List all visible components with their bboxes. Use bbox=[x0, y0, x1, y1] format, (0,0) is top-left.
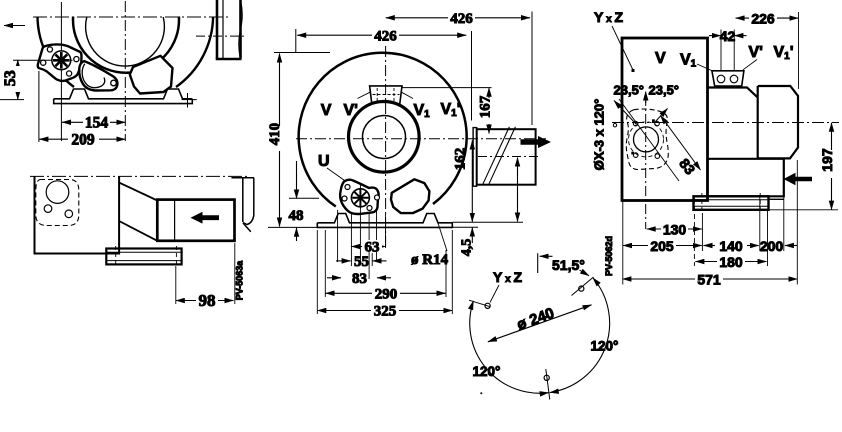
dimension 325 bbox=[317, 230, 452, 320]
svg-text:V': V' bbox=[749, 44, 763, 61]
svg-text:PV-5062d: PV-5062d bbox=[604, 236, 614, 276]
radial stub hole 1 bbox=[469, 300, 491, 307]
terminal box trapezoid bbox=[370, 86, 402, 105]
fan cover joint line bbox=[757, 86, 759, 159]
bolt hole lower-left bbox=[633, 153, 638, 158]
kidney inner hook line bbox=[82, 64, 105, 88]
dimension 130 bbox=[647, 222, 702, 238]
flange hole top-left bbox=[47, 47, 52, 52]
svg-text:V': V' bbox=[344, 102, 358, 119]
terminal box trapezoid bbox=[712, 71, 744, 86]
svg-text:53: 53 bbox=[2, 70, 19, 86]
dashed flange footprint bbox=[36, 180, 79, 226]
svg-text:162: 162 bbox=[453, 148, 469, 171]
left 23,5 arrow bbox=[614, 101, 636, 125]
dimension 42 bbox=[709, 28, 747, 71]
body outline bbox=[35, 176, 120, 253]
bolt hole lower-right bbox=[655, 154, 660, 159]
51,5 deg reference line bbox=[538, 253, 589, 275]
dimension 83 bbox=[327, 271, 391, 287]
radial stub hole 2 bbox=[572, 277, 594, 296]
flange hole right bbox=[375, 195, 380, 200]
muffler inner line bbox=[222, 0, 224, 58]
flange bore circle bbox=[46, 181, 69, 204]
dimension 200 bbox=[760, 238, 797, 254]
svg-text:98: 98 bbox=[199, 291, 216, 310]
VIEW D: right side view bbox=[592, 9, 840, 288]
dimension 426 lower bbox=[296, 29, 472, 121]
flange star circle bbox=[351, 189, 369, 207]
VIEW C: bottom-left half plan view bbox=[30, 176, 254, 310]
base plate bottom and end caps bbox=[54, 99, 193, 104]
inlet arrow (black) bbox=[784, 173, 813, 186]
dimension 140 bbox=[704, 238, 759, 254]
muffler break line bbox=[239, 0, 243, 59]
flange vertical centerline with arrow bbox=[645, 92, 647, 230]
flange hole bottom bbox=[67, 71, 72, 76]
left 120 deg arc bbox=[470, 301, 549, 393]
svg-text:426: 426 bbox=[450, 11, 473, 27]
outlet muffler box bbox=[477, 129, 536, 185]
svg-text:V: V bbox=[655, 50, 666, 67]
svg-text:V: V bbox=[321, 102, 332, 119]
casing end silhouette bbox=[231, 178, 254, 232]
terminal box glands bbox=[717, 75, 725, 83]
dimension 571 bbox=[622, 272, 797, 288]
svg-text:23,5°: 23,5° bbox=[649, 83, 680, 98]
dimension 426 upper bbox=[386, 11, 532, 125]
muffler inner line bbox=[174, 201, 176, 241]
stray dot bbox=[480, 392, 482, 394]
muffler centerline bbox=[196, 35, 247, 37]
silencer step line bbox=[769, 198, 785, 200]
horizontal centerline bbox=[612, 122, 839, 124]
base plate bbox=[694, 196, 769, 210]
inlet arrow (black) bbox=[191, 212, 220, 224]
muffler centerline bbox=[478, 156, 538, 158]
bolt dot lower-left bbox=[631, 152, 634, 155]
dimension 53 bbox=[0, 60, 24, 100]
svg-text:197: 197 bbox=[819, 148, 835, 172]
kidney cutout outline bbox=[79, 61, 117, 90]
extension lines bottom bbox=[623, 160, 798, 285]
dimension 197 bbox=[769, 123, 839, 210]
right 120 deg arc bbox=[550, 278, 610, 393]
flange hole left bbox=[44, 205, 52, 213]
base plate profile bbox=[317, 214, 452, 223]
flange blob outline bbox=[38, 44, 82, 80]
dimension 4,5 bbox=[452, 227, 478, 256]
VIEW A: top-left partial front view bbox=[0, 0, 247, 148]
dimension 63 bbox=[351, 240, 385, 256]
svg-text:55: 55 bbox=[354, 254, 369, 270]
flange crosshair horizontal + 53 ext bbox=[13, 59, 73, 61]
svg-text:140: 140 bbox=[719, 238, 743, 254]
base plate profile top bbox=[54, 89, 193, 99]
discharge arrow (black) bbox=[521, 136, 552, 148]
horizontal centerline bbox=[296, 138, 546, 140]
svg-text:ø R14: ø R14 bbox=[411, 252, 449, 268]
svg-text:42: 42 bbox=[720, 28, 736, 44]
dimension 154 bbox=[62, 115, 125, 132]
muffler break lines bbox=[483, 127, 515, 184]
svg-text:180: 180 bbox=[719, 254, 743, 270]
casing top edge bbox=[708, 88, 758, 98]
base plate inner lines bbox=[694, 200, 769, 207]
bolt hole upper-right bbox=[655, 121, 660, 126]
pentagon cutout bbox=[391, 179, 429, 213]
leader to V1 label bbox=[402, 92, 414, 98]
svg-text:290: 290 bbox=[375, 287, 398, 303]
diagonal hole axis line bbox=[619, 99, 679, 181]
base bolt dashed lines bbox=[116, 246, 177, 267]
svg-text:48: 48 bbox=[289, 208, 304, 224]
flange extension lines down bbox=[338, 184, 386, 279]
impeller ring arc bbox=[73, 17, 179, 73]
base plate bbox=[106, 249, 181, 265]
diameter 240 dimension line bbox=[488, 305, 592, 342]
svg-text:200: 200 bbox=[760, 238, 784, 254]
dimension 205 bbox=[623, 238, 702, 254]
flange hole left bbox=[342, 196, 347, 201]
motor outline bbox=[758, 86, 798, 158]
pentagon cutout bbox=[130, 56, 173, 94]
horizontal centerline / symmetry line bbox=[30, 175, 247, 177]
svg-text:V1': V1' bbox=[774, 44, 794, 62]
main horizontal centerline bbox=[33, 16, 228, 18]
svg-text:167: 167 bbox=[478, 95, 494, 118]
flange star symbol bbox=[53, 52, 70, 69]
flange hole right bbox=[65, 210, 73, 218]
discharge muffler box bbox=[217, 0, 241, 59]
svg-text:ØX-3 x 120°: ØX-3 x 120° bbox=[592, 99, 607, 171]
dimension 209 bbox=[39, 71, 125, 148]
svg-text:226: 226 bbox=[751, 11, 775, 27]
dimension 226 bbox=[736, 11, 799, 90]
base bolt centerlines bbox=[702, 193, 760, 213]
right 23,5 arrow bbox=[656, 109, 668, 122]
svg-text:120°: 120° bbox=[473, 364, 501, 379]
leader to V' label bbox=[358, 92, 371, 98]
flange hole top-left bbox=[345, 185, 350, 190]
base top extension line right bbox=[452, 221, 523, 223]
svg-text:120°: 120° bbox=[591, 339, 619, 354]
flange hole left bbox=[41, 60, 46, 65]
bolt hole upper-left bbox=[633, 121, 638, 126]
unlabeled vertical dimension at muffler bbox=[517, 158, 519, 222]
outlet flange plate bbox=[473, 128, 477, 187]
duct lower diagonal bbox=[119, 221, 157, 241]
base plate inner lines bbox=[106, 252, 181, 260]
bolt hole 3 (bottom) bbox=[544, 375, 549, 380]
flange bore dashed ring bbox=[629, 122, 664, 157]
flange blob outline bbox=[340, 180, 378, 214]
hub ring circle bbox=[349, 102, 420, 173]
dimension 83 diagonal bbox=[661, 116, 701, 178]
inner bore arc bbox=[86, 17, 165, 66]
svg-text:PV-5063a: PV-5063a bbox=[235, 260, 245, 301]
svg-text:205: 205 bbox=[650, 238, 674, 254]
dimension 290 bbox=[325, 230, 446, 303]
flange hole bottom-right bbox=[367, 206, 372, 211]
vertical centerline bbox=[385, 46, 387, 247]
outer casing arc right bbox=[176, 17, 213, 88]
bolt dot upper-right bbox=[652, 119, 655, 122]
dimension 48 bbox=[289, 161, 320, 241]
radial stub hole 3 bbox=[546, 369, 550, 400]
leader from YxZ to flange bbox=[612, 26, 635, 72]
flange dashed footprint bbox=[626, 109, 668, 170]
dimension 98 bbox=[176, 243, 235, 310]
leader from U to flange bbox=[327, 168, 345, 181]
svg-text:325: 325 bbox=[374, 304, 397, 320]
VIEW E: bolt circle diagram bbox=[469, 253, 618, 399]
bore circle bbox=[363, 116, 406, 159]
flange centerline vertical bbox=[60, 2, 62, 141]
flange star circle bbox=[52, 51, 71, 70]
kidney hole bottom-right bbox=[111, 80, 117, 86]
svg-text:V1': V1' bbox=[441, 101, 461, 119]
dimension 410 bbox=[267, 53, 330, 228]
main vertical centerline bbox=[124, 1, 126, 141]
outer casing circle bbox=[299, 53, 467, 207]
VIEW B: middle front view bbox=[267, 11, 551, 320]
degree circle symbol bbox=[613, 124, 616, 127]
base plate bottom bbox=[317, 223, 452, 228]
flange bore circle bbox=[634, 127, 659, 152]
dimension 162 bbox=[453, 141, 473, 222]
leader V' to box bbox=[743, 60, 757, 70]
flange hole right bbox=[74, 57, 79, 62]
label Y x Z with leader bbox=[490, 269, 522, 303]
flange star symbol bbox=[352, 189, 368, 206]
foot cross mark bbox=[182, 93, 197, 108]
label R14 with leader bbox=[411, 220, 449, 268]
cropped dimension arrow at left edge bbox=[4, 25, 25, 27]
dimension 180 bbox=[695, 254, 766, 270]
svg-text:154: 154 bbox=[85, 115, 109, 132]
svg-text:23,5°: 23,5° bbox=[614, 83, 645, 98]
svg-text:4,5: 4,5 bbox=[460, 239, 475, 257]
svg-text:130: 130 bbox=[663, 222, 687, 238]
bolt hole 2 (upper-right) bbox=[579, 286, 584, 291]
terminal box dashed gland lines bbox=[373, 88, 400, 103]
outer casing arc left bbox=[38, 17, 75, 88]
duct upper diagonal bbox=[119, 183, 157, 201]
inlet silencer box bbox=[708, 159, 784, 197]
bolt hole 1 (upper-left) bbox=[485, 303, 490, 308]
svg-text:83: 83 bbox=[352, 271, 367, 287]
inlet muffler box bbox=[157, 200, 234, 241]
leader V1 to box bbox=[697, 64, 712, 71]
dimension 55 bbox=[336, 253, 387, 270]
svg-text:U: U bbox=[318, 153, 330, 170]
svg-text:209: 209 bbox=[71, 131, 95, 148]
svg-text:410: 410 bbox=[267, 123, 283, 146]
dimension 167 bbox=[402, 88, 494, 134]
flange plate rectangle bbox=[622, 38, 708, 201]
svg-text:571: 571 bbox=[697, 272, 721, 288]
svg-text:426: 426 bbox=[374, 29, 397, 45]
